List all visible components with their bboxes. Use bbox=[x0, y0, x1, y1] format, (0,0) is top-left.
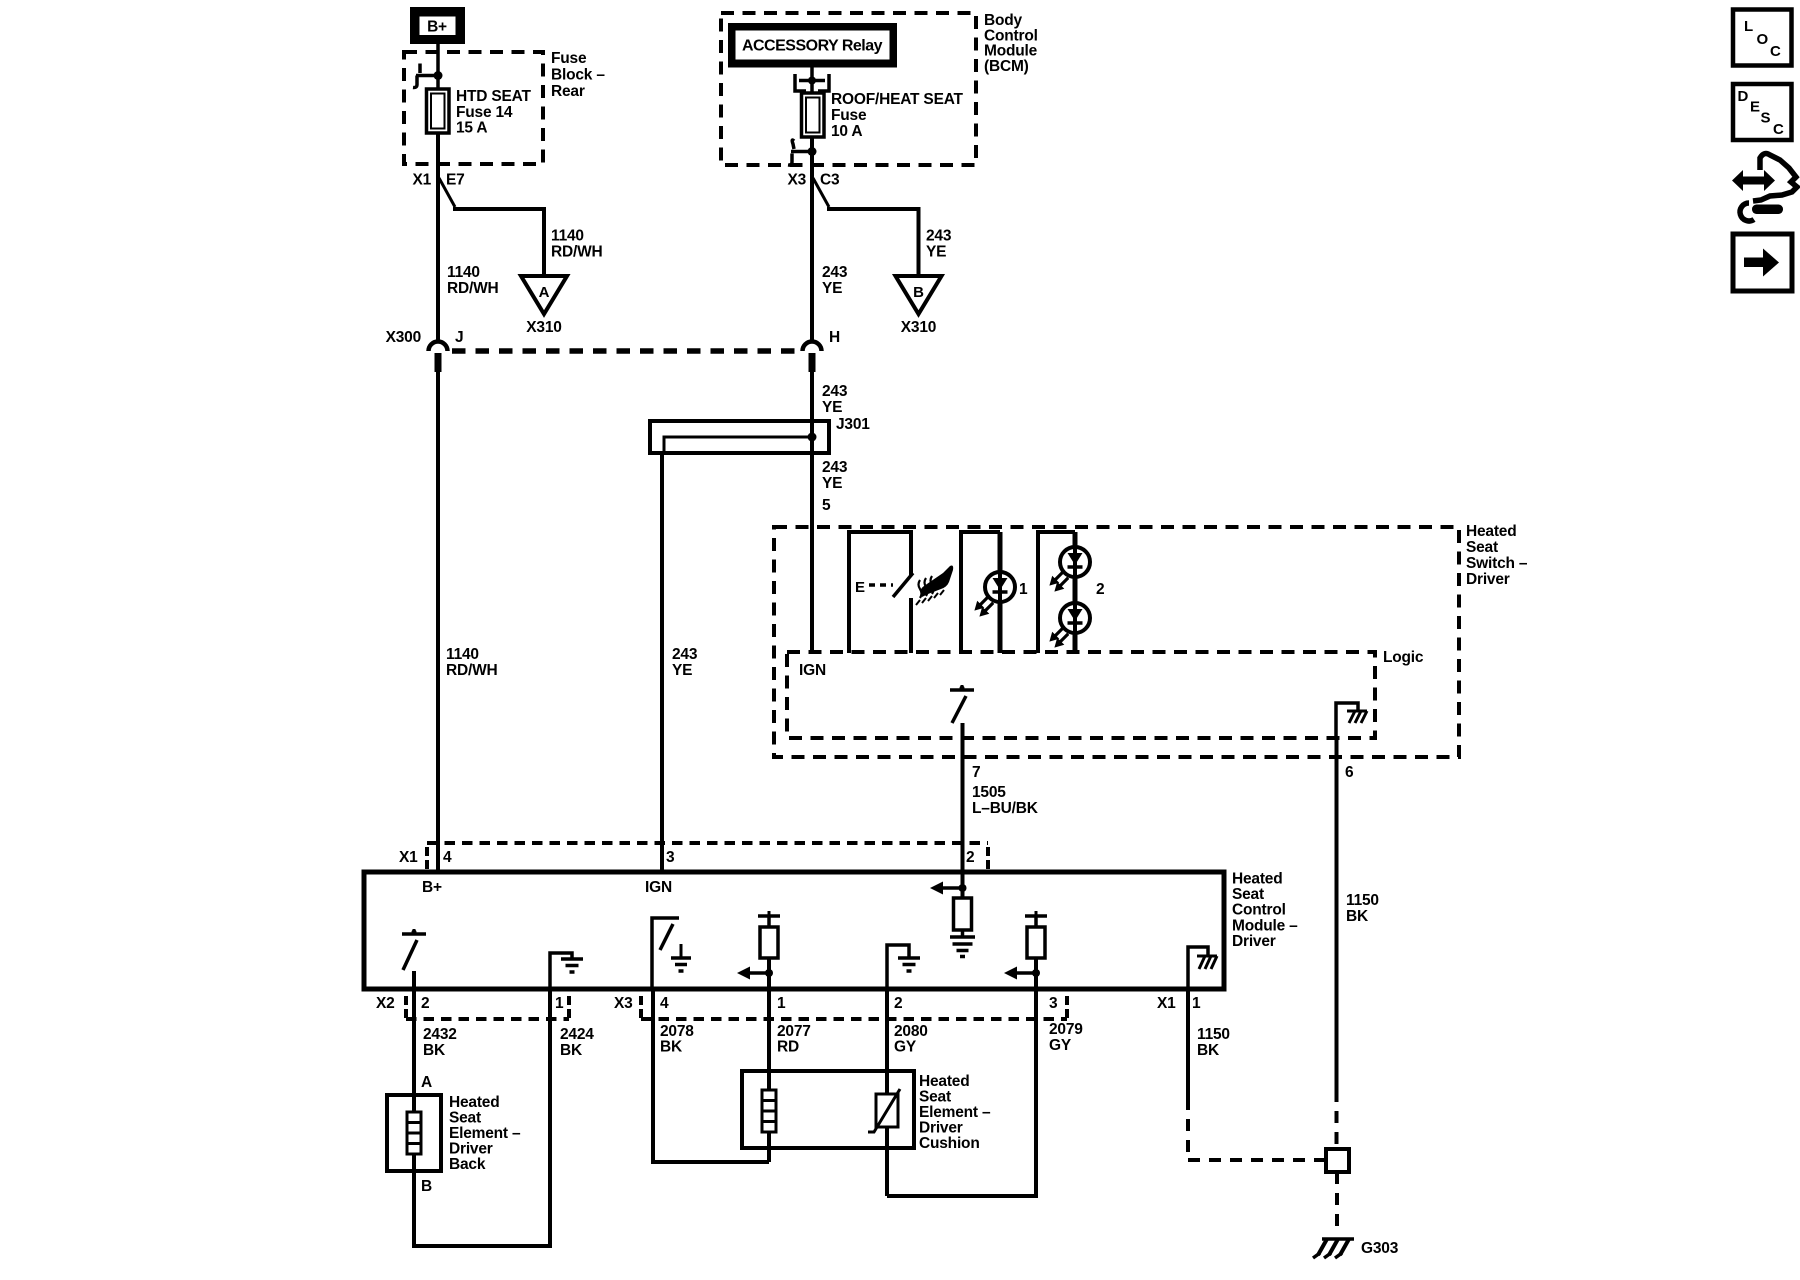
svg-text:GY: GY bbox=[894, 1039, 917, 1056]
module internal switch (B+ output) bbox=[402, 929, 426, 989]
wire labels 2432 BK / 2424 BK / 2078 BK / 2077 RD / 2080 GY / 2079 GY / 1150 BK bbox=[423, 1021, 1230, 1059]
svg-text:1: 1 bbox=[777, 995, 786, 1012]
svg-text:Module –: Module – bbox=[1232, 918, 1298, 935]
label 243 YE (main wire) bbox=[822, 264, 848, 297]
module internal ground (pin X3-2) bbox=[887, 945, 920, 989]
svg-text:BK: BK bbox=[560, 1042, 583, 1059]
svg-text:5: 5 bbox=[822, 497, 831, 514]
svg-text:X310: X310 bbox=[526, 319, 561, 336]
svg-text:G303: G303 bbox=[1361, 1240, 1399, 1257]
connector triangle A X310 bbox=[521, 276, 567, 336]
label Fuse Block - Rear bbox=[551, 50, 605, 100]
svg-text:Rear: Rear bbox=[551, 83, 585, 100]
svg-text:HTD SEAT: HTD SEAT bbox=[456, 88, 531, 105]
svg-text:A: A bbox=[539, 284, 550, 301]
svg-text:Logic: Logic bbox=[1383, 649, 1424, 666]
connector X2 dashed line below module bbox=[406, 996, 569, 1019]
svg-text:2: 2 bbox=[1096, 581, 1104, 598]
svg-text:Back: Back bbox=[449, 1156, 486, 1173]
wire 2077 RD to cushion heater bbox=[767, 989, 771, 1090]
svg-text:6: 6 bbox=[1345, 764, 1354, 781]
svg-text:1140: 1140 bbox=[446, 646, 479, 663]
svg-text:Heated: Heated bbox=[1466, 523, 1516, 540]
svg-text:Block –: Block – bbox=[551, 67, 605, 84]
fuse ROOF/HEAT SEAT 10 A bbox=[802, 93, 825, 137]
label 243 YE (branch) bbox=[926, 228, 952, 261]
svg-text:2077: 2077 bbox=[777, 1023, 811, 1040]
svg-text:YE: YE bbox=[822, 475, 842, 492]
svg-text:X300: X300 bbox=[386, 329, 421, 346]
svg-text:X2: X2 bbox=[376, 995, 395, 1012]
label Heated Seat Switch - Driver bbox=[1466, 523, 1528, 588]
svg-text:S: S bbox=[1761, 110, 1771, 127]
connector X300 J bbox=[386, 329, 464, 372]
svg-text:3: 3 bbox=[1049, 995, 1058, 1012]
svg-text:Control: Control bbox=[1232, 902, 1286, 919]
svg-text:C: C bbox=[1773, 121, 1784, 138]
wire 2078 BK bbox=[653, 989, 769, 1162]
label 243 YE (IGN wire) bbox=[672, 646, 698, 679]
svg-text:YE: YE bbox=[822, 280, 842, 297]
svg-text:RD/WH: RD/WH bbox=[551, 244, 603, 261]
svg-text:1150: 1150 bbox=[1346, 892, 1379, 909]
pin labels X2 2 1 X3 4 1 2 3 X1 1 bbox=[376, 995, 1201, 1012]
svg-text:243: 243 bbox=[672, 646, 698, 663]
svg-text:RD: RD bbox=[777, 1039, 799, 1056]
connector triangle B X310 bbox=[896, 276, 942, 336]
Body Control Module (BCM) dashed box bbox=[721, 13, 976, 165]
connector X3 dashed line below module bbox=[641, 996, 1067, 1019]
svg-text:Driver: Driver bbox=[919, 1120, 963, 1137]
svg-text:Fuse: Fuse bbox=[831, 107, 867, 124]
svg-text:L: L bbox=[1744, 18, 1753, 35]
svg-text:GY: GY bbox=[1049, 1037, 1072, 1054]
svg-text:243: 243 bbox=[822, 459, 848, 476]
svg-text:D: D bbox=[1738, 88, 1749, 105]
wire pin 7 to module pin 2 bbox=[961, 723, 965, 872]
wire 2432 BK to back element bbox=[412, 989, 416, 1112]
switch actuator E dashes bbox=[855, 579, 893, 596]
Heated Seat Control Module box bbox=[364, 872, 1224, 989]
svg-text:Cushion: Cushion bbox=[919, 1135, 980, 1152]
svg-text:Element –: Element – bbox=[919, 1104, 991, 1121]
label 1140 RD/WH (main wire) bbox=[447, 264, 499, 297]
labels X1 4 3 2 bbox=[399, 849, 974, 866]
svg-text:IGN: IGN bbox=[645, 879, 672, 896]
svg-text:Seat: Seat bbox=[449, 1110, 481, 1127]
wire J301 to IGN pin 3 bbox=[660, 453, 664, 872]
svg-text:IGN: IGN bbox=[799, 662, 826, 679]
label 1505 L-BU/BK bbox=[972, 784, 1039, 817]
svg-text:J301: J301 bbox=[836, 416, 870, 433]
svg-text:BK: BK bbox=[660, 1039, 683, 1056]
in-line harness dashed link X300 to H bbox=[452, 348, 799, 354]
LED indicator 2 (dual) bbox=[1038, 532, 1104, 653]
svg-text:RD/WH: RD/WH bbox=[446, 662, 498, 679]
svg-text:Seat: Seat bbox=[919, 1089, 951, 1106]
module driver resistor + arrow (pin X3-1) bbox=[737, 911, 780, 989]
svg-text:243: 243 bbox=[926, 228, 952, 245]
label ROOF/HEAT SEAT Fuse 10 A bbox=[831, 91, 964, 140]
pin label X3 C3 bbox=[787, 172, 840, 189]
svg-text:L–BU/BK: L–BU/BK bbox=[972, 800, 1039, 817]
label HTD SEAT Fuse 14 15 A bbox=[456, 88, 531, 137]
back heater element bbox=[407, 1112, 421, 1154]
heated seat icon bbox=[916, 566, 953, 606]
svg-text:RD/WH: RD/WH bbox=[447, 280, 499, 297]
dashed wire splice to G303 bbox=[1335, 1172, 1339, 1233]
label 243 YE (below J301) bbox=[822, 459, 848, 492]
wire branch to connector B bbox=[813, 178, 829, 207]
svg-text:X1: X1 bbox=[1157, 995, 1176, 1012]
svg-text:YE: YE bbox=[822, 399, 842, 416]
svg-text:YE: YE bbox=[926, 244, 946, 261]
svg-text:BK: BK bbox=[1346, 908, 1369, 925]
svg-text:Driver: Driver bbox=[1466, 571, 1510, 588]
svg-text:1150: 1150 bbox=[1197, 1026, 1230, 1043]
svg-text:C3: C3 bbox=[820, 172, 840, 189]
svg-text:X1: X1 bbox=[399, 849, 418, 866]
svg-text:Fuse: Fuse bbox=[551, 50, 587, 67]
svg-text:Switch –: Switch – bbox=[1466, 555, 1528, 572]
icon LOC box bbox=[1733, 10, 1792, 66]
svg-text:4: 4 bbox=[443, 849, 452, 866]
svg-text:E: E bbox=[855, 579, 865, 596]
Fuse Block - Rear dashed box bbox=[404, 52, 543, 164]
label Heated Seat Element - Driver Back bbox=[449, 1094, 521, 1173]
Heated Seat Switch - Driver dashed box bbox=[774, 527, 1459, 757]
pin label X1 E7 bbox=[412, 172, 464, 189]
label 1140 RD/WH (lower) bbox=[446, 646, 498, 679]
svg-text:10 A: 10 A bbox=[831, 123, 862, 140]
svg-text:B: B bbox=[913, 284, 924, 301]
svg-text:Element –: Element – bbox=[449, 1125, 521, 1142]
svg-text:Driver: Driver bbox=[1232, 933, 1276, 950]
svg-text:2: 2 bbox=[966, 849, 974, 866]
svg-text:E: E bbox=[1750, 99, 1760, 116]
label 1150 BK (right) bbox=[1346, 892, 1379, 925]
svg-text:O: O bbox=[1757, 31, 1769, 48]
wire element B loop to 2424 BK bbox=[414, 989, 550, 1246]
wire H to J301 to switch bbox=[810, 370, 814, 652]
connector H bbox=[803, 329, 841, 372]
switch S1 contact bbox=[849, 532, 913, 653]
svg-text:1140: 1140 bbox=[551, 228, 584, 245]
relay contact symbol bbox=[795, 67, 829, 93]
icon DESC box bbox=[1733, 84, 1792, 140]
svg-text:J: J bbox=[455, 329, 463, 346]
Logic dashed box bbox=[787, 652, 1375, 738]
power symbol B+ bbox=[410, 7, 465, 44]
svg-text:C: C bbox=[1770, 43, 1781, 60]
module internal chassis ground (pin X1-1) bbox=[1188, 947, 1217, 989]
ACCESSORY Relay box bbox=[728, 23, 897, 68]
icon forward arrow box bbox=[1733, 234, 1792, 291]
svg-text:ACCESSORY Relay: ACCESSORY Relay bbox=[742, 38, 883, 55]
svg-text:X1: X1 bbox=[412, 172, 431, 189]
svg-text:X3: X3 bbox=[787, 172, 806, 189]
svg-text:2079: 2079 bbox=[1049, 1021, 1083, 1038]
svg-text:Fuse 14: Fuse 14 bbox=[456, 104, 513, 121]
relay contact in fuse block bbox=[413, 64, 443, 88]
svg-text:2: 2 bbox=[894, 995, 902, 1012]
svg-text:2078: 2078 bbox=[660, 1023, 694, 1040]
svg-text:1505: 1505 bbox=[972, 784, 1006, 801]
svg-text:2: 2 bbox=[421, 995, 429, 1012]
logic internal ground pin 6 bbox=[1336, 703, 1367, 738]
wire fuse to X300 bbox=[436, 133, 440, 343]
svg-text:2424: 2424 bbox=[560, 1026, 594, 1043]
splice pack J301 bbox=[650, 416, 870, 453]
dashed 1150 BK run to splice bbox=[1188, 1098, 1326, 1160]
module internal ground (pin X2-1) bbox=[550, 953, 583, 989]
LED indicator 1 bbox=[961, 532, 1028, 653]
svg-text:X3: X3 bbox=[614, 995, 633, 1012]
module sense resistor to ground (pin X1-2) bbox=[930, 872, 975, 957]
ground splice block bbox=[1326, 1149, 1349, 1172]
svg-text:1140: 1140 bbox=[447, 264, 480, 281]
svg-text:15 A: 15 A bbox=[456, 120, 487, 137]
svg-text:7: 7 bbox=[972, 764, 980, 781]
svg-text:B+: B+ bbox=[422, 879, 442, 896]
svg-text:1: 1 bbox=[555, 995, 564, 1012]
svg-text:Heated: Heated bbox=[449, 1094, 499, 1111]
svg-text:2080: 2080 bbox=[894, 1023, 928, 1040]
wire pin 6 down bbox=[1335, 738, 1339, 1090]
svg-text:X310: X310 bbox=[901, 319, 936, 336]
module driver resistor + arrow (pin X3-3) bbox=[1004, 911, 1047, 989]
Heated Seat Element Driver Back box bbox=[387, 1095, 441, 1171]
svg-text:YE: YE bbox=[672, 662, 692, 679]
svg-text:ROOF/HEAT SEAT: ROOF/HEAT SEAT bbox=[831, 91, 964, 108]
svg-text:243: 243 bbox=[822, 383, 848, 400]
wire 2079 GY loop bbox=[887, 989, 1036, 1196]
svg-text:BK: BK bbox=[1197, 1042, 1220, 1059]
module internal switch to ground (IGN pin X3-4) bbox=[652, 918, 691, 989]
relay contact below fuse bbox=[788, 140, 817, 165]
svg-text:Heated: Heated bbox=[1232, 871, 1282, 888]
label 1140 RD/WH (branch) bbox=[551, 228, 603, 261]
svg-text:1: 1 bbox=[1192, 995, 1201, 1012]
svg-text:Seat: Seat bbox=[1232, 886, 1264, 903]
connector X1 dashed line above module bbox=[427, 843, 988, 869]
cushion thermistor bbox=[868, 989, 900, 1196]
wire B+ down to fuse bbox=[436, 44, 440, 89]
svg-text:H: H bbox=[829, 329, 840, 346]
svg-text:(BCM): (BCM) bbox=[984, 58, 1029, 75]
wire fuse to H bbox=[810, 137, 814, 343]
label Heated Seat Control Module - Driver bbox=[1232, 871, 1298, 951]
svg-text:1: 1 bbox=[1019, 581, 1028, 598]
svg-text:B+: B+ bbox=[427, 19, 447, 36]
fuse HTD SEAT Fuse 14 15 A bbox=[427, 89, 450, 133]
svg-text:E7: E7 bbox=[446, 172, 465, 189]
svg-text:243: 243 bbox=[822, 264, 848, 281]
icon connector repair (arrow + wrench) bbox=[1732, 154, 1797, 221]
wire X300 down to module pin 4 bbox=[436, 370, 440, 872]
svg-text:BK: BK bbox=[423, 1042, 446, 1059]
svg-text:4: 4 bbox=[660, 995, 669, 1012]
label 243 YE (above J301) bbox=[822, 383, 848, 416]
svg-text:B: B bbox=[421, 1178, 432, 1195]
wire 1150 BK from module X1-1 bbox=[1186, 989, 1190, 1098]
svg-text:Driver: Driver bbox=[449, 1141, 493, 1158]
svg-text:3: 3 bbox=[666, 849, 675, 866]
label Body Control Module (BCM) bbox=[984, 12, 1038, 75]
svg-text:Seat: Seat bbox=[1466, 539, 1498, 556]
cushion heater element bbox=[762, 1090, 776, 1162]
svg-text:2432: 2432 bbox=[423, 1026, 457, 1043]
Heated Seat Element Driver Cushion box bbox=[742, 1071, 914, 1148]
label Heated Seat Element - Driver Cushion bbox=[919, 1073, 991, 1152]
ground G303 bbox=[1313, 1239, 1399, 1258]
svg-text:Heated: Heated bbox=[919, 1073, 969, 1090]
dashed 1150 BK run from pin 6 bbox=[1335, 1090, 1339, 1149]
wire branch to connector A bbox=[439, 178, 455, 207]
logic output switch pin 7 bbox=[950, 685, 974, 723]
svg-text:A: A bbox=[421, 1074, 432, 1091]
